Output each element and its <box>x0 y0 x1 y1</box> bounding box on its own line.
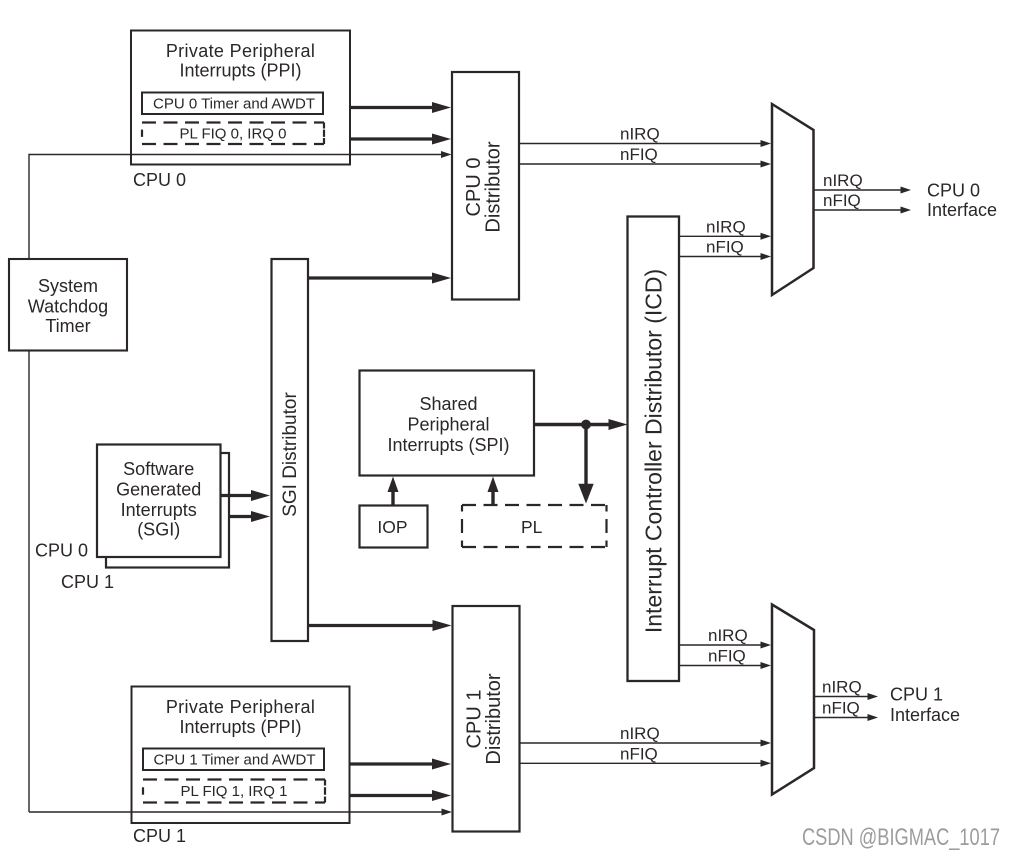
arrowhead PL FIQ 1 to CPU 1 distributor <box>432 790 451 801</box>
svg-text:Interrupts (PPI): Interrupts (PPI) <box>179 717 301 737</box>
svg-text:Shared: Shared <box>419 394 477 414</box>
block CPU 1 Distributor <box>453 606 520 832</box>
sub-block PL FIQ 0, IRQ 0 (dashed) <box>142 123 324 145</box>
svg-text:PL FIQ 0, IRQ 0: PL FIQ 0, IRQ 0 <box>180 125 287 142</box>
svg-text:CSDN @BIGMAC_1017: CSDN @BIGMAC_1017 <box>802 824 1000 851</box>
svg-text:Timer: Timer <box>45 316 90 336</box>
wire SPI to ICD (thick) <box>534 423 609 426</box>
wire CPU 1 distributor nIRQ to mux 1 (thin) <box>520 742 762 744</box>
svg-text:(SGI): (SGI) <box>137 520 180 540</box>
svg-text:CPU 1: CPU 1 <box>133 826 186 846</box>
wire ICD nIRQ to interface mux 1 (thin) <box>679 644 761 646</box>
sub-block CPU 1 Timer and AWDT <box>143 749 324 771</box>
svg-text:nFIQ: nFIQ <box>620 744 658 763</box>
wire ICD nFIQ to interface mux 0 (thin) <box>679 256 761 258</box>
arrowhead PL FIQ 0 to CPU 0 distributor <box>432 134 451 145</box>
wire system watchdog timer to CPU 1 distributor vertical rail (thin) <box>28 351 30 813</box>
wire system watchdog timer to CPU 0 distributor (thin, via left rail) <box>29 155 444 260</box>
block SGI Distributor <box>272 259 309 641</box>
sub-block PL FIQ 1, IRQ 1 (dashed) <box>143 780 325 803</box>
arrowhead down into PL <box>578 484 593 504</box>
block System Watchdog Timer <box>9 259 127 351</box>
wire ICD nIRQ to interface mux 0 (thin) <box>679 235 761 237</box>
wire CPU 1 distributor nFIQ to mux 1 (thin) <box>520 762 762 764</box>
wire system watchdog timer to CPU 1 distributor horizontal run (thin) <box>29 811 445 813</box>
svg-text:CPU 0: CPU 0 <box>133 170 186 190</box>
arrowhead mux 0 nIRQ out <box>901 187 912 194</box>
arrowhead SGI CPU 0 to SGI distributor <box>251 490 270 501</box>
wire SGI distributor to CPU 0 distributor (thick) <box>308 276 433 279</box>
svg-text:PL FIQ 1, IRQ 1: PL FIQ 1, IRQ 1 <box>181 783 288 800</box>
svg-text:PL: PL <box>521 517 543 537</box>
wire SGI CPU 0 to SGI distributor (thick) <box>221 494 252 497</box>
wire ICD nFIQ to interface mux 1 (thin) <box>679 665 761 667</box>
block SGI shadow box (CPU 1 copy) <box>106 453 229 568</box>
svg-text:nIRQ: nIRQ <box>620 724 660 743</box>
arrowhead nFIQ into mux 0 <box>761 161 772 168</box>
arrowhead ICD nFIQ into mux 0 <box>761 253 772 260</box>
wire junction down to PL (thick) <box>584 425 587 486</box>
block Software Generated Interrupts (SGI) <box>97 445 221 558</box>
arrowhead SGI distributor to CPU 0 distributor <box>432 273 451 284</box>
arrowhead watchdog to CPU 0 distributor <box>441 151 452 158</box>
sub-block CPU 0 Timer and AWDT <box>142 93 323 115</box>
svg-text:CPU 1: CPU 1 <box>61 572 114 592</box>
arrowhead PL to SPI <box>488 477 499 493</box>
block CPU 0 Distributor <box>452 72 519 300</box>
svg-text:CPU 1 Timer and AWDT: CPU 1 Timer and AWDT <box>154 751 316 768</box>
svg-text:System: System <box>38 276 98 296</box>
svg-text:Peripheral: Peripheral <box>407 415 489 435</box>
junction dot on SPI wire <box>581 420 591 430</box>
wire mux 0 nIRQ out (thin) <box>814 189 901 191</box>
svg-text:SGI Distributor: SGI Distributor <box>280 392 301 517</box>
wire CPU 1 timer to CPU 1 distributor (thick) <box>350 762 433 765</box>
svg-text:Private Peripheral: Private Peripheral <box>166 697 315 717</box>
mux trapezoid CPU 1 interface <box>772 605 814 795</box>
wire mux 0 nFIQ out (thin) <box>814 209 901 211</box>
wire PL FIQ 1 to CPU 1 distributor (thick) <box>350 794 433 797</box>
svg-text:nFIQ: nFIQ <box>706 238 744 257</box>
arrowhead CPU 1 distributor nIRQ into mux 1 <box>761 740 772 747</box>
block PPI1: Private Peripheral Interrupts (PPI) for CPU 1 <box>132 687 350 824</box>
wire PL up to SPI (thick) <box>491 492 494 505</box>
svg-text:Generated: Generated <box>116 480 201 500</box>
svg-text:Interface: Interface <box>890 705 960 725</box>
arrowhead CPU 1 timer to CPU 1 distributor <box>432 759 451 770</box>
wire SGI distributor to CPU 1 distributor (thick) <box>308 624 433 627</box>
arrowhead mux 1 nIRQ out <box>868 693 879 700</box>
svg-text:Watchdog: Watchdog <box>28 296 108 316</box>
wire SGI CPU 1 to SGI distributor (thick) <box>229 515 252 518</box>
svg-text:Distributor: Distributor <box>483 673 505 764</box>
svg-text:Private Peripheral: Private Peripheral <box>166 41 315 61</box>
arrowhead nIRQ into mux 0 <box>761 140 772 147</box>
arrowhead IOP to SPI <box>388 477 399 493</box>
arrowhead CPU 1 distributor nFIQ into mux 1 <box>761 760 772 767</box>
svg-text:nFIQ: nFIQ <box>823 191 861 210</box>
arrowhead mux 0 nFIQ out <box>901 207 912 214</box>
svg-text:Interrupts: Interrupts <box>121 500 197 520</box>
svg-text:nFIQ: nFIQ <box>822 699 860 718</box>
svg-text:CPU 0: CPU 0 <box>927 181 980 201</box>
arrowhead SGI CPU 1 to SGI distributor <box>251 511 270 522</box>
block IOP <box>360 506 428 548</box>
wire PL FIQ 0 to CPU 0 distributor (thick) <box>350 137 433 140</box>
block Interrupt Controller Distributor (ICD) <box>628 217 680 682</box>
svg-text:Interface: Interface <box>927 200 997 220</box>
wire CPU 0 distributor nIRQ to interface mux (thin) <box>519 143 761 145</box>
block PPI0: Private Peripheral Interrupts (PPI) for CPU 0 <box>131 31 350 165</box>
block PL (dashed) <box>462 505 607 547</box>
svg-text:CPU 0 Timer and AWDT: CPU 0 Timer and AWDT <box>153 95 315 112</box>
wire mux 1 nIRQ out (thin) <box>814 696 868 698</box>
svg-text:nIRQ: nIRQ <box>708 626 748 645</box>
svg-text:Interrupt Controller Distribut: Interrupt Controller Distributor (ICD) <box>641 269 667 633</box>
arrowhead ICD nFIQ into mux 1 <box>761 662 772 669</box>
arrowhead SPI to ICD <box>609 419 628 430</box>
wire IOP up to SPI (thick) <box>391 492 394 506</box>
svg-text:nFIQ: nFIQ <box>620 145 658 164</box>
arrowhead SGI distributor to CPU 1 distributor <box>433 620 452 631</box>
wire CPU 0 timer to CPU 0 distributor (thick) <box>350 106 433 109</box>
svg-text:Interrupts (PPI): Interrupts (PPI) <box>179 61 301 81</box>
svg-text:nIRQ: nIRQ <box>823 171 863 190</box>
svg-text:nIRQ: nIRQ <box>706 217 746 236</box>
mux trapezoid CPU 0 interface <box>772 104 814 295</box>
arrowhead timer to CPU 0 distributor <box>432 102 451 113</box>
svg-text:CPU 1: CPU 1 <box>890 685 943 705</box>
svg-text:IOP: IOP <box>377 517 407 537</box>
svg-text:Interrupts (SPI): Interrupts (SPI) <box>387 435 509 455</box>
arrowhead ICD nIRQ into mux 0 <box>761 233 772 240</box>
arrowhead watchdog to CPU 1 distributor <box>442 809 453 816</box>
arrowhead ICD nIRQ into mux 1 <box>761 642 772 649</box>
wire CPU 0 distributor nFIQ to interface mux (thin) <box>519 163 761 165</box>
svg-text:nIRQ: nIRQ <box>822 678 862 697</box>
block Shared Peripheral Interrupts (SPI) <box>360 371 535 476</box>
arrowhead mux 1 nFIQ out <box>868 714 879 721</box>
svg-text:Software: Software <box>123 459 194 479</box>
wire mux 1 nFIQ out (thin) <box>814 717 868 719</box>
svg-text:nFIQ: nFIQ <box>708 647 746 666</box>
svg-text:Distributor: Distributor <box>483 141 505 232</box>
svg-text:CPU 0: CPU 0 <box>35 541 88 561</box>
svg-text:nIRQ: nIRQ <box>620 125 660 144</box>
